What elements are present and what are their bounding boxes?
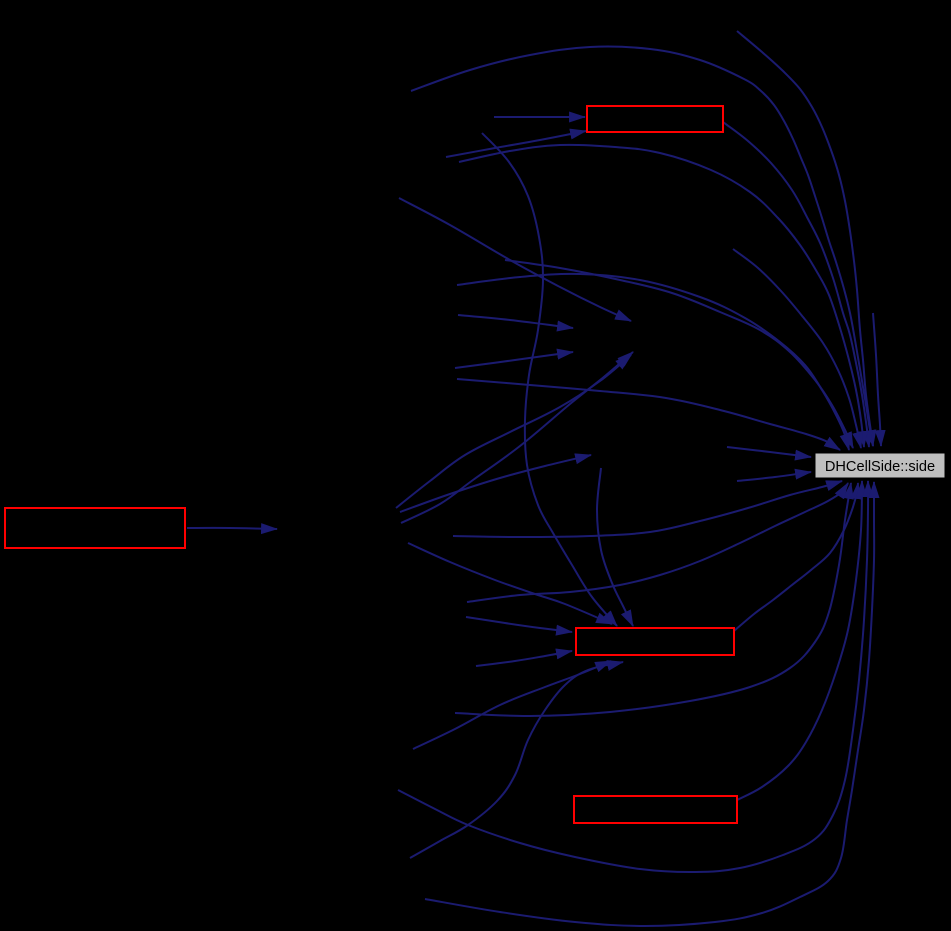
edge l1 flat [457,274,849,450]
edge r2 arrow2 p1 [446,131,586,157]
edge ev stub vertical [873,313,881,446]
edge r1 arrow [187,528,277,529]
edge qa long bottom [398,481,868,872]
edge l4 stub [727,447,811,457]
edge r2 arrow1 [494,116,585,118]
edge f2 fan [400,455,591,512]
edge l5 stub [737,472,811,481]
svg-text:DHCellSide::side: DHCellSide::side [825,459,935,475]
edge b1 into box3 bottom [413,661,611,749]
edge a4 stub [455,352,573,368]
edge a3 stub [458,315,573,328]
edge s long vertical [482,133,617,626]
edge from r2 out [723,122,869,447]
edge f4 fan down [408,543,612,624]
node box R3 (mid caller, truncated) [576,628,734,655]
edge d1 diag [399,198,631,321]
edge f3 long under [453,481,842,537]
edge steep2 [597,468,633,626]
edge f6 into box3 left [466,617,572,632]
edge t1 [733,249,861,448]
edge box4 out [737,481,862,800]
node box R1 (left caller, truncated) [5,508,185,548]
node box R2 (top caller, truncated) [587,106,723,132]
edge qb long bottom2 [425,482,874,926]
edge f1 fan diag2 [396,355,631,508]
edge arc1 top outer [411,47,873,446]
node box R4 (bottom caller, truncated) [574,796,737,823]
edge b2 into box3 bottom2 [410,662,623,858]
edge box3 out [734,483,858,631]
edge v [505,260,853,448]
edge f5 long rise [467,483,848,602]
edge e8 into box3 left2 [476,651,572,666]
edge l2 [457,379,840,450]
edge p2 long under r2 [459,145,864,447]
edge a2 diag [401,352,633,523]
node DHCellSide::side (current) [815,453,945,478]
edge t2 [737,31,873,446]
edge u2 under box3 [455,483,851,716]
